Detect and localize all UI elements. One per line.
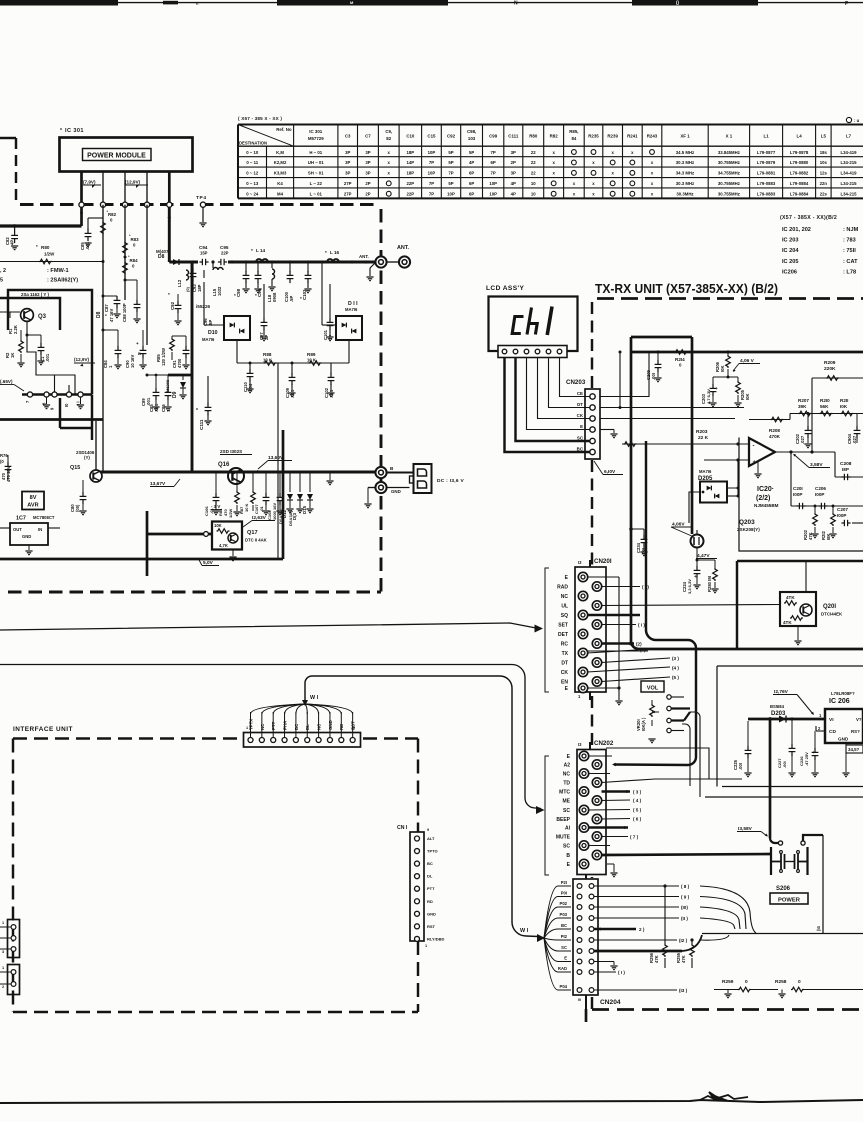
svg-text:K3,M3: K3,M3 — [274, 171, 287, 176]
svg-text:SQ: SQ — [561, 613, 568, 619]
svg-text:R243: R243 — [647, 134, 658, 139]
CN201 pin 7 DET — [578, 629, 587, 638]
svg-text:12s: 12s — [820, 171, 828, 176]
feedback wire down to C201 — [790, 452, 792, 506]
DC plug housing — [414, 464, 432, 493]
CN202 pin 10 MUTE — [592, 832, 601, 841]
CN202 pin 8 BEEP — [592, 814, 601, 823]
svg-text:R84: R84 — [130, 258, 139, 263]
svg-text:C207: C207 — [837, 507, 848, 512]
svg-text:I00P: I00P — [815, 492, 824, 497]
svg-text:VI: VI — [829, 717, 834, 723]
svg-text:ANT.: ANT. — [359, 254, 369, 259]
svg-text:2P: 2P — [365, 181, 370, 186]
left unit dashed border bottom — [8, 591, 381, 594]
svg-text:1: 1 — [425, 944, 427, 948]
CN202 pin 9 AI — [579, 823, 588, 832]
svg-text:BS5I84: BS5I84 — [770, 704, 785, 709]
wire bend box Q3 collector — [27, 345, 75, 394]
wire LCD pin5 to CN203 DT — [549, 358, 590, 408]
svg-text:R89: R89 — [307, 352, 316, 357]
svg-text:-: - — [753, 444, 755, 450]
W1 pin 6 DL — [305, 738, 310, 743]
svg-text:7P: 7P — [491, 171, 496, 176]
CN1 pin 3 BC — [415, 861, 420, 866]
CN203 pin 6 BC — [590, 449, 595, 454]
svg-text:L79-0880: L79-0880 — [790, 160, 809, 165]
svg-text:: L78: : L78 — [843, 269, 856, 275]
svg-text:(4 ): (4 ) — [672, 666, 679, 671]
svg-text:SC: SC — [563, 844, 570, 850]
wire CN204 P04 (13) — [594, 989, 677, 991]
svg-text:BC: BC — [427, 861, 433, 866]
svg-text:B: B — [566, 853, 570, 859]
GND connector wire and ground — [368, 487, 375, 489]
LCD assembly box — [489, 297, 578, 352]
svg-text:7P: 7P — [429, 160, 434, 165]
svg-text:7: 7 — [25, 400, 30, 403]
TX-RX unit dashed border left — [591, 302, 593, 388]
svg-text:CK: CK — [561, 670, 569, 676]
CN202 pin 7 SC — [579, 805, 588, 814]
audio sub box outline2 — [748, 481, 750, 496]
svg-text:PTT: PTT — [427, 886, 435, 891]
svg-text:(7,9V): (7,9V) — [83, 180, 96, 185]
svg-text:: CAT: : CAT — [843, 259, 858, 265]
svg-text:( I ): ( I ) — [638, 623, 645, 628]
svg-text:P04: P04 — [560, 984, 568, 989]
svg-text:C98: C98 — [236, 288, 241, 297]
svg-text:15P: 15P — [200, 251, 208, 256]
CN203 pin 5 SC — [590, 438, 595, 443]
svg-text:Q16: Q16 — [218, 462, 230, 468]
wire CN202 SC (5) — [589, 809, 631, 812]
svg-text:IC 205: IC 205 — [782, 259, 798, 265]
svg-text:x: x — [388, 171, 391, 176]
svg-text:P03: P03 — [560, 912, 568, 917]
W1 pin 2 NC — [259, 738, 264, 743]
CN201 pin 13 E — [578, 683, 587, 692]
svg-text:I00P: I00P — [837, 513, 846, 518]
junction dots on antenna bus — [191, 260, 194, 263]
wire CN204 BC thick (2) — [594, 928, 636, 930]
wire CN202 B to S206 — [602, 854, 772, 855]
CN202 connector box — [577, 750, 606, 875]
svg-text:RD: RD — [427, 899, 433, 904]
svg-text:IC 206: IC 206 — [829, 698, 850, 705]
svg-text:XF 1: XF 1 — [680, 134, 690, 139]
CN201 label bracket — [545, 568, 549, 692]
CN204 pin 8 E — [577, 959, 582, 964]
CN1 pin 1 ALT — [415, 836, 420, 841]
transistor Q203 FET — [691, 535, 704, 548]
svg-text:GND: GND — [22, 534, 31, 539]
svg-text:10s: 10s — [820, 160, 828, 165]
svg-text:DTC II 4AK: DTC II 4AK — [245, 538, 267, 543]
svg-text:NC: NC — [563, 772, 571, 778]
wire CN201 RAD (1) — [602, 586, 641, 588]
page top edge bar — [0, 0, 118, 6]
transistor Q15 — [90, 470, 102, 482]
svg-text:(): () — [676, 0, 679, 5]
svg-text:18P: 18P — [407, 171, 415, 176]
wire CN203 CK right — [600, 418, 735, 420]
thick shield box right inner x276 — [275, 472, 277, 559]
svg-text:10 16V: 10 16V — [130, 355, 135, 368]
svg-text:I0K: I0K — [720, 365, 725, 372]
svg-text:x: x — [611, 150, 614, 155]
node on Q17 wire — [204, 532, 209, 537]
svg-text:22P: 22P — [407, 181, 415, 186]
Q15 collector wire — [95, 421, 97, 470]
svg-text:120 1/2W: 120 1/2W — [161, 348, 166, 366]
pin row terminal 10 — [66, 392, 71, 397]
svg-text:x: x — [631, 150, 634, 155]
POWER label box — [770, 893, 808, 904]
svg-text:DESTINATION: DESTINATION — [239, 141, 267, 146]
module pin row line — [22, 393, 92, 395]
svg-text:R80: R80 — [41, 245, 50, 250]
Q17 emitter down — [232, 550, 234, 556]
svg-text:L34-215: L34-215 — [841, 181, 858, 186]
svg-text:D203: D203 — [771, 711, 786, 717]
svg-text:(2): (2) — [636, 642, 642, 647]
svg-text:RST: RST — [427, 924, 436, 929]
svg-text:POWER MODULE: POWER MODULE — [87, 153, 146, 160]
wire CN202 MUTE (7) — [602, 836, 629, 838]
audio sub box outline — [739, 438, 863, 552]
svg-text:*: * — [325, 250, 327, 255]
wire CN202 ME (4) — [602, 799, 631, 802]
CN201 pin 12 EN — [592, 677, 601, 686]
svg-text:D8: D8 — [158, 254, 165, 260]
svg-text:TPTO: TPTO — [427, 849, 438, 854]
svg-text:SET: SET — [558, 623, 568, 629]
8V AVR box — [22, 492, 44, 510]
svg-text:x: x — [651, 192, 654, 197]
long wire second — [0, 664, 512, 666]
D205 left wire to Q203 — [689, 492, 700, 523]
wire CN201 CK (4) — [587, 667, 670, 672]
svg-text:L79-0884: L79-0884 — [790, 181, 809, 186]
S206 switch — [778, 841, 782, 845]
svg-text:C206: C206 — [815, 486, 826, 491]
svg-text:AI: AI — [565, 826, 571, 832]
svg-text:IC 203: IC 203 — [782, 238, 798, 244]
svg-text:SH ~ 01: SH ~ 01 — [308, 171, 324, 176]
junction dot RC x631 — [629, 642, 633, 646]
svg-text:2Sa 1162 ( Y ): 2Sa 1162 ( Y ) — [21, 292, 49, 297]
svg-text:R209: R209 — [824, 360, 836, 366]
power module pin 4 wire — [146, 171, 148, 205]
svg-text:x: x — [592, 181, 595, 186]
svg-text:3P: 3P — [511, 171, 516, 176]
wire pin5 thick down — [168, 208, 171, 263]
Q17 sub box — [212, 522, 242, 550]
svg-text:CK: CK — [577, 413, 584, 418]
LCD pin 6 — [557, 349, 562, 354]
svg-text:6P: 6P — [469, 181, 474, 186]
svg-text:22s: 22s — [820, 192, 828, 197]
svg-text:7P: 7P — [491, 150, 496, 155]
svg-text:POWER: POWER — [778, 898, 801, 904]
interface unit dashed border bottom — [13, 1011, 418, 1013]
thick shield box bottom — [0, 558, 283, 561]
wires CN204 right (11) — [594, 917, 679, 919]
IC206 GND pin wire — [845, 743, 847, 772]
svg-text:34,5?: 34,5? — [848, 747, 860, 752]
svg-text:DTCI44EK: DTCI44EK — [821, 612, 843, 617]
svg-text:3P: 3P — [365, 160, 370, 165]
wire CN201 TX long — [588, 650, 648, 652]
svg-text:IC206: IC206 — [782, 269, 797, 275]
pin row terminal 11 — [78, 392, 83, 397]
svg-text:47K: 47K — [681, 955, 686, 963]
wire CN201 RC (2) — [602, 642, 635, 644]
ground stub near CN202 — [607, 863, 614, 865]
svg-text:R82: R82 — [550, 134, 559, 139]
CN201 pin 10 DT — [592, 658, 601, 667]
svg-text:CN I: CN I — [397, 825, 408, 831]
svg-text:PI2: PI2 — [561, 934, 568, 939]
Q201 sub box — [780, 592, 816, 626]
svg-text:(00): (00) — [75, 504, 80, 512]
power module pin 3 wire — [124, 171, 126, 205]
svg-text:30.755MHz: 30.755MHz — [718, 160, 740, 165]
thick wire IC206 to S206 — [769, 719, 772, 838]
wire LCD pin4 to CN203 CK — [538, 358, 590, 419]
svg-text:6P: 6P — [491, 160, 496, 165]
svg-text:DT: DT — [561, 661, 568, 667]
svg-text:4700: 4700 — [177, 358, 182, 368]
svg-text:E: E — [565, 686, 569, 692]
svg-text:22: 22 — [531, 160, 536, 165]
svg-text:C3: C3 — [345, 134, 351, 139]
svg-text:84: 84 — [571, 136, 576, 141]
svg-text:C92: C92 — [170, 301, 175, 310]
TX-RX unit dashed border bottom — [592, 1008, 863, 1011]
thick vertical x631 — [630, 337, 633, 641]
svg-text:C9,: C9, — [385, 129, 392, 134]
shield box inner — [0, 298, 60, 330]
svg-text:: 783: : 783 — [843, 238, 856, 244]
svg-text:*: * — [196, 408, 198, 414]
junction dot C82 — [13, 224, 17, 228]
svg-text:1: 1 — [2, 966, 4, 970]
svg-text:(0): (0) — [185, 286, 190, 292]
svg-text:INTERFACE UNIT: INTERFACE UNIT — [13, 726, 73, 733]
svg-text:( 3 ): ( 3 ) — [633, 790, 642, 795]
svg-text:R83: R83 — [131, 237, 140, 242]
svg-text:L79-0878: L79-0878 — [790, 150, 809, 155]
svg-text:RC: RC — [561, 642, 569, 648]
svg-text:C20I: C20I — [793, 486, 803, 491]
svg-text:SC: SC — [563, 808, 570, 814]
Q201 ground — [797, 626, 799, 640]
svg-text:7P: 7P — [429, 181, 434, 186]
wire x103 to rail — [102, 419, 104, 472]
svg-text:(.65V): (.65V) — [0, 379, 13, 384]
svg-text:1: 1 — [2, 921, 4, 925]
wire CN203 DT right — [600, 407, 744, 409]
svg-text:AVR: AVR — [27, 503, 38, 509]
svg-text:(0: (0 — [0, 459, 4, 464]
R259 ground — [727, 990, 729, 994]
svg-text:1C7: 1C7 — [16, 516, 26, 522]
svg-text:18s: 18s — [820, 150, 828, 155]
svg-text:22P: 22P — [221, 251, 229, 256]
CN202 pin 13 E — [579, 859, 588, 868]
svg-text:1: 1 — [585, 874, 587, 878]
svg-text:.00I: .00I — [738, 763, 743, 770]
IC7 regulator box — [10, 523, 48, 545]
LCD pin 4 — [535, 349, 540, 354]
node pin1 on dashed border — [79, 202, 84, 207]
CN202 pin 4 TD — [592, 778, 601, 787]
W1 connector strip — [244, 733, 361, 748]
svg-text:DSA3A(: DSA3A( — [278, 508, 283, 524]
CN203 pin 2 DT — [590, 405, 595, 410]
gnd right of D15 — [329, 472, 331, 480]
svg-text:*: * — [60, 128, 62, 134]
wire CN202 E stub — [589, 755, 613, 757]
svg-text:39K: 39K — [798, 404, 807, 409]
svg-text:(I3 ): (I3 ) — [679, 988, 688, 993]
node pin2 on dashed border — [100, 202, 105, 207]
page bottom rule — [0, 1100, 863, 1103]
svg-text:LCD ASS'Y: LCD ASS'Y — [486, 285, 524, 292]
LCD seven-segment ch1 — [512, 307, 552, 336]
svg-text:*: * — [251, 248, 253, 253]
VOL label box — [641, 681, 664, 692]
svg-text:8V: 8V — [30, 495, 37, 501]
svg-text:(I4: (I4 — [816, 925, 821, 931]
svg-text:R235: R235 — [588, 134, 599, 139]
TX-RX unit dashed border top — [597, 297, 863, 300]
svg-text:33.845MHz: 33.845MHz — [718, 150, 740, 155]
interface unit dashed border top — [13, 737, 240, 739]
svg-text:M57729: M57729 — [308, 136, 324, 141]
node pin5 on dashed border — [167, 202, 172, 207]
svg-text:4P: 4P — [511, 192, 516, 197]
svg-text:10P: 10P — [428, 150, 436, 155]
svg-text:1K: 1K — [10, 353, 15, 358]
CN201 pin 1 E — [578, 572, 587, 581]
svg-text:2: 2 — [2, 985, 4, 989]
svg-text:UH ~ 01: UH ~ 01 — [308, 160, 324, 165]
svg-text:L79-0882: L79-0882 — [790, 171, 809, 176]
svg-text:Q203: Q203 — [739, 519, 755, 526]
svg-text:+: + — [136, 341, 139, 346]
svg-text:Q20I: Q20I — [823, 604, 836, 610]
wire CN202 AI thick arrow — [589, 826, 629, 828]
wire CN201 SET (1) — [602, 624, 637, 626]
svg-text:10K: 10K — [214, 523, 222, 528]
svg-text:: 2SAII62(Y): : 2SAII62(Y) — [47, 278, 78, 284]
svg-text:.001: .001 — [45, 353, 50, 362]
svg-text:R2II: R2II — [840, 398, 848, 403]
svg-text:R85,: R85, — [569, 129, 578, 134]
CN201 stub top — [589, 560, 591, 567]
Q201 collector up — [805, 561, 807, 592]
antenna bus wire — [228, 261, 381, 264]
svg-text:R2I4: R2I4 — [675, 357, 685, 362]
thick wires CN203 SC/BC down — [645, 441, 647, 630]
svg-text:: 75II: : 75II — [843, 248, 856, 254]
svg-text:R280 IM: R280 IM — [707, 576, 712, 592]
svg-text:I8P: I8P — [842, 467, 849, 472]
wire CN201 SQ thick — [588, 614, 640, 616]
svg-text:5: 5 — [0, 278, 3, 284]
LCD pin 1 — [502, 349, 507, 354]
svg-text:1032: 1032 — [217, 286, 222, 296]
svg-text:L ~ 22: L ~ 22 — [310, 181, 323, 186]
svg-text:x: x — [592, 160, 595, 165]
svg-text:x: x — [388, 160, 391, 165]
svg-text:L 14: L 14 — [256, 248, 266, 253]
svg-text:L1: L1 — [764, 134, 770, 139]
svg-text:(2/2): (2/2) — [756, 495, 770, 502]
svg-text:C7: C7 — [365, 134, 371, 139]
CN202 pin 12 B — [592, 850, 601, 859]
svg-text:R239: R239 — [607, 134, 618, 139]
svg-text:R88: R88 — [263, 352, 272, 357]
svg-text:P: P — [845, 1, 849, 7]
wire S206 down tail — [822, 835, 824, 934]
svg-text:4P: 4P — [10, 240, 15, 245]
svg-text:47 16V: 47 16V — [109, 309, 114, 322]
svg-text:C10: C10 — [406, 134, 415, 139]
svg-text:10: 10 — [531, 181, 536, 186]
svg-text:C94: C94 — [199, 245, 208, 250]
svg-text:5P: 5P — [448, 160, 453, 165]
svg-text:SC: SC — [561, 945, 567, 950]
svg-text:- 3 V: - 3 V — [211, 504, 220, 509]
svg-text:0 ~ 11: 0 ~ 11 — [246, 160, 258, 165]
svg-text:I3: I3 — [578, 560, 582, 565]
thick shield box right x283 — [282, 430, 285, 559]
CN1 pin 8 RST — [415, 924, 420, 929]
svg-text:27P: 27P — [344, 192, 352, 197]
svg-text:34.3 MHz: 34.3 MHz — [676, 171, 694, 176]
svg-text:P0I: P0I — [561, 890, 567, 895]
svg-text:L34-215: L34-215 — [841, 192, 858, 197]
IC206 box — [825, 709, 863, 743]
CN204 pin 6 PI2 — [577, 938, 582, 943]
svg-text:V?: V? — [856, 717, 862, 722]
thick bus top right y352 — [631, 351, 863, 354]
left unit dashed border corner — [0, 137, 16, 139]
svg-text:I0K(A ): I0K(A ) — [641, 717, 646, 731]
wire CN202 NC stub — [589, 773, 611, 775]
svg-text:R259: R259 — [722, 979, 734, 985]
svg-text:9: 9 — [50, 407, 55, 410]
svg-text:10P: 10P — [428, 171, 436, 176]
bundle curve right edge — [700, 886, 756, 933]
CN201 connector box — [575, 567, 606, 692]
CN203 pin 3 CK — [590, 416, 595, 421]
svg-text:.027: .027 — [852, 435, 857, 444]
svg-text:Ref. No: Ref. No — [276, 127, 292, 132]
svg-text:( 6 ): ( 6 ) — [633, 817, 642, 822]
svg-text:( 5 ): ( 5 ) — [633, 808, 642, 813]
svg-text:L79-0877: L79-0877 — [757, 150, 776, 155]
svg-text:K,M: K,M — [276, 150, 284, 155]
svg-text:, 2: , 2 — [0, 268, 6, 274]
op-amp IC201 triangle — [749, 438, 775, 466]
svg-text:.027: .027 — [800, 435, 805, 444]
CN204 pin 5 BC — [577, 927, 582, 932]
